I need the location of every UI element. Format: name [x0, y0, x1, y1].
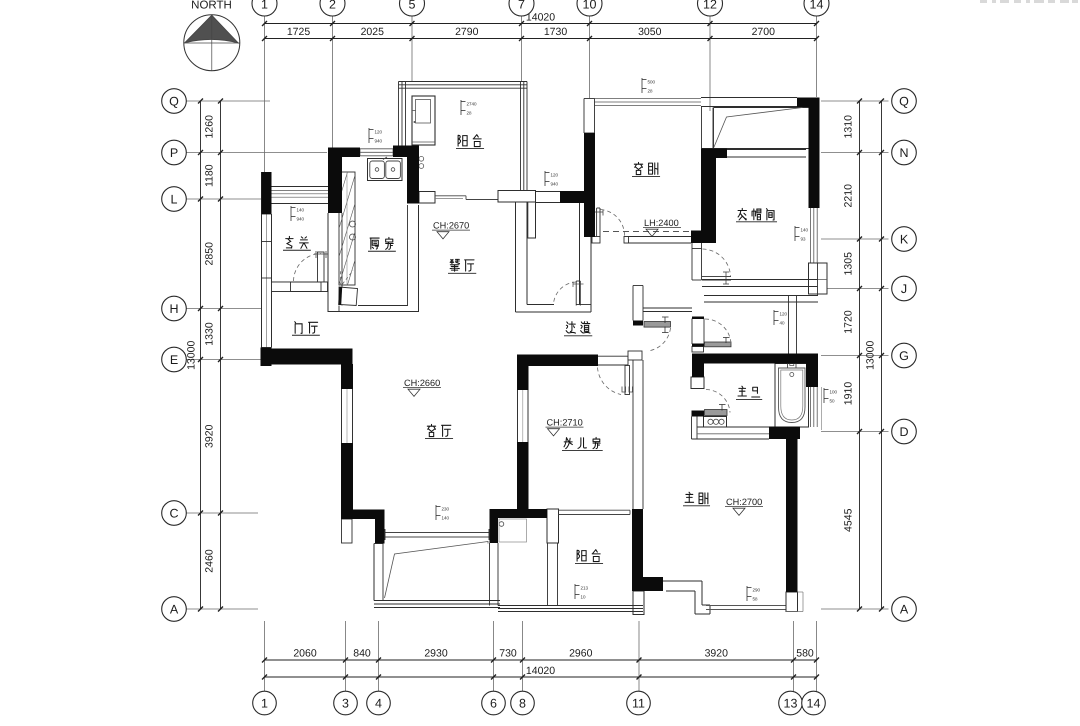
svg-text:1310: 1310 — [843, 115, 855, 139]
svg-text:CH:2660: CH:2660 — [404, 378, 440, 388]
svg-text:3920: 3920 — [705, 648, 729, 660]
svg-text:58: 58 — [753, 597, 759, 602]
svg-text:500: 500 — [648, 80, 656, 85]
svg-text:13000: 13000 — [865, 341, 877, 370]
svg-text:10: 10 — [583, 0, 597, 12]
svg-text:1: 1 — [261, 0, 268, 12]
svg-text:28: 28 — [648, 89, 654, 94]
svg-text:4: 4 — [375, 696, 382, 710]
svg-text:A: A — [900, 602, 909, 616]
svg-text:13: 13 — [784, 696, 798, 710]
svg-text:140: 140 — [801, 228, 809, 233]
svg-text:940: 940 — [297, 217, 305, 222]
svg-text:730: 730 — [499, 648, 517, 660]
svg-text:140: 140 — [442, 516, 450, 521]
svg-text:L: L — [171, 192, 178, 206]
svg-text:1305: 1305 — [843, 252, 855, 276]
svg-text:D: D — [899, 425, 908, 439]
svg-text:Q: Q — [169, 94, 179, 108]
svg-text:3: 3 — [342, 696, 349, 710]
svg-text:CH:2700: CH:2700 — [726, 497, 762, 507]
svg-text:CH:2670: CH:2670 — [433, 221, 469, 231]
svg-text:P: P — [170, 146, 178, 160]
svg-text:140: 140 — [297, 208, 305, 213]
svg-text:40: 40 — [780, 321, 786, 326]
svg-text:14: 14 — [807, 696, 821, 710]
svg-text:120: 120 — [375, 130, 383, 135]
svg-text:CH:2710: CH:2710 — [547, 418, 583, 428]
svg-text:2210: 2210 — [843, 184, 855, 208]
svg-text:7: 7 — [518, 0, 525, 12]
svg-text:14020: 14020 — [526, 12, 555, 24]
svg-text:14020: 14020 — [526, 665, 555, 677]
svg-text:2960: 2960 — [569, 648, 593, 660]
svg-text:4545: 4545 — [843, 508, 855, 532]
svg-text:2740: 2740 — [467, 102, 478, 107]
svg-text:213: 213 — [581, 586, 589, 591]
svg-text:1330: 1330 — [204, 322, 216, 346]
svg-text:A: A — [170, 602, 179, 616]
svg-text:840: 840 — [353, 648, 371, 660]
svg-text:2060: 2060 — [293, 648, 317, 660]
svg-text:5: 5 — [409, 0, 416, 12]
svg-text:8: 8 — [519, 696, 526, 710]
svg-text:1720: 1720 — [843, 310, 855, 334]
svg-text:2850: 2850 — [204, 242, 216, 266]
svg-text:12: 12 — [703, 0, 717, 12]
svg-text:G: G — [899, 349, 909, 363]
svg-text:1910: 1910 — [843, 382, 855, 406]
svg-text:2700: 2700 — [752, 26, 776, 38]
svg-text:1730: 1730 — [544, 26, 568, 38]
svg-text:940: 940 — [375, 139, 383, 144]
svg-text:J: J — [901, 282, 907, 296]
svg-text:1260: 1260 — [204, 115, 216, 139]
svg-text:N: N — [899, 146, 908, 160]
svg-text:290: 290 — [753, 588, 761, 593]
svg-text:2025: 2025 — [361, 26, 385, 38]
svg-text:93: 93 — [801, 237, 807, 242]
svg-text:E: E — [170, 353, 178, 367]
svg-text:230: 230 — [442, 507, 450, 512]
svg-text:940: 940 — [551, 182, 559, 187]
svg-text:50: 50 — [830, 399, 836, 404]
svg-text:1725: 1725 — [287, 26, 311, 38]
svg-text:1180: 1180 — [204, 164, 216, 187]
svg-text:Q: Q — [899, 94, 909, 108]
svg-text:580: 580 — [796, 648, 814, 660]
svg-text:28: 28 — [467, 111, 473, 116]
svg-text:2: 2 — [329, 0, 336, 12]
svg-text:2790: 2790 — [455, 26, 479, 38]
svg-text:1: 1 — [261, 696, 268, 710]
svg-text:120: 120 — [780, 312, 788, 317]
svg-text:14: 14 — [810, 0, 824, 12]
svg-text:6: 6 — [490, 696, 497, 710]
svg-text:10: 10 — [581, 595, 587, 600]
svg-text:K: K — [900, 232, 909, 246]
svg-text:120: 120 — [551, 173, 559, 178]
svg-text:100: 100 — [830, 390, 838, 395]
svg-text:3920: 3920 — [204, 424, 216, 448]
svg-text:H: H — [169, 302, 178, 316]
svg-text:11: 11 — [632, 696, 645, 710]
svg-text:13000: 13000 — [186, 341, 198, 370]
svg-text:2930: 2930 — [424, 648, 448, 660]
svg-text:LH:2400: LH:2400 — [644, 218, 679, 228]
svg-text:3050: 3050 — [638, 26, 662, 38]
svg-text:2460: 2460 — [204, 549, 216, 573]
svg-text:C: C — [169, 506, 178, 520]
svg-text:NORTH: NORTH — [191, 0, 232, 12]
